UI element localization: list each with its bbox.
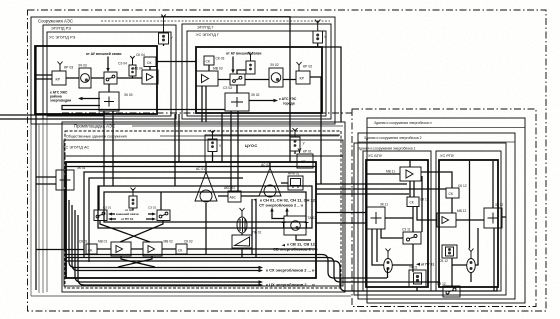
wire bus 2 (to РПУ) — [66, 258, 440, 283]
switch СВ 11 — [402, 228, 421, 245]
svg-text:внешней связи: внешней связи — [116, 212, 139, 216]
wire X-cross below МВ — [121, 256, 155, 267]
switch СВ 02 — [148, 206, 170, 221]
svg-text:АБС: АБС — [230, 196, 237, 200]
svg-text:СЗ 04: СЗ 04 — [118, 62, 127, 66]
wire ЗК11 right — [385, 217, 413, 219]
svg-text:СВ 12: СВ 12 — [439, 259, 448, 263]
wire МВ03-СВ03 — [218, 79, 230, 81]
node ЦУОС box — [205, 135, 340, 162]
svg-text:ЦУОС: ЦУОС — [245, 143, 258, 148]
receiver П (АС) with antenna — [129, 188, 137, 211]
svg-text:Здания и сооружения энергобл: Здания и сооружения энергоблока н — [374, 121, 432, 125]
wire into МВ11 — [366, 173, 400, 175]
selector СК 01 — [79, 240, 97, 255]
antenna receiver У (right, above КР01) — [290, 128, 306, 154]
frame: энергоблоки dash-dot group — [352, 109, 536, 307]
selector СК 12 — [446, 184, 467, 198]
wire ЗК03 to ЗК02 (U-route) — [62, 106, 225, 110]
wire СК12-МВ12 — [451, 198, 453, 213]
wire loop inner — [104, 192, 306, 222]
wire arrow pair к СХ энергоблоков — [79, 267, 259, 269]
wire: arrow ЗК02 to АТС УЭС — [249, 100, 274, 102]
summator ЗК 01 — [56, 166, 86, 190]
radio КР 02 — [296, 62, 312, 84]
svg-text:УС ЭПУПД РЭ: УС ЭПУПД РЭ — [49, 35, 76, 40]
frame: УС БПУ — [363, 151, 431, 291]
wire СВ03-МВ04 — [117, 77, 142, 79]
receiver П (Г) with antenna — [237, 52, 255, 74]
svg-text:УС БПУ: УС БПУ — [368, 153, 383, 158]
svg-text:СТ энергоблоков 2 .. н: СТ энергоблоков 2 .. н — [259, 203, 304, 208]
svg-text:ЗЧ 02: ЗЧ 02 — [270, 63, 279, 67]
wire СВ03(Г) to ЗК02 — [236, 85, 238, 93]
wire МВ03 drops — [202, 86, 206, 122]
svg-text:ЗК 11: ЗК 11 — [380, 203, 388, 207]
svg-text:КР 02: КР 02 — [303, 65, 312, 69]
svg-text:МВ 04: МВ 04 — [133, 67, 143, 71]
svg-text:КР 01: КР 01 — [303, 150, 312, 154]
radio КР 01 — [297, 149, 313, 169]
amplifier МВ 04 — [133, 67, 158, 85]
wire СВ03 to ЗК03 — [108, 84, 110, 92]
wire: arrow ЗК03 to АТС УЖС — [82, 98, 100, 100]
wire loop (heavy) around СВ group — [98, 186, 312, 228]
wire КР03-ЗУ03 — [66, 77, 79, 79]
wire СК04 to СК03 (долгая) — [156, 61, 196, 63]
amplifier МВ 12 — [437, 209, 466, 227]
svg-text:МВ 03: МВ 03 — [213, 67, 223, 71]
wire АС01 down — [205, 203, 207, 255]
wire СК04-МВ04 — [149, 67, 151, 71]
selector СК 11 — [407, 197, 429, 207]
switch СВ 01 — [94, 206, 111, 221]
frame line УС ЭПУПД АС inner — [64, 155, 343, 157]
svg-text:ЗК 03: ЗК 03 — [124, 93, 133, 97]
wire МВ12-ЗК12 — [456, 219, 484, 221]
heavy box УС РПУ — [439, 160, 498, 287]
svg-text:СК: СК — [410, 201, 414, 205]
wire long loop 2 — [89, 178, 243, 262]
summator ЗК 02 — [225, 93, 260, 111]
wire: up arrows from ТА 01 — [272, 211, 284, 219]
loudspeaker amp АС 02 — [259, 162, 281, 197]
svg-text:к СХ энергоблоков 2 ... н: к СХ энергоблоков 2 ... н — [266, 268, 315, 273]
svg-text:от ПУ 01: от ПУ 01 — [421, 263, 434, 267]
svg-text:от АУ внешней связи: от АУ внешней связи — [226, 52, 261, 56]
wire ЗУ03-СВ03 — [91, 77, 104, 79]
svg-text:МВ 12: МВ 12 — [457, 209, 466, 213]
svg-text:УС ЭПУПД АС: УС ЭПУПД АС — [63, 145, 89, 150]
antenna receiver Рп (Г top) — [313, 20, 327, 48]
svg-text:Здания и сооружения энергобл: Здания и сооружения энергоблока 2 — [364, 136, 422, 140]
antenna receiver У (АС top) — [208, 130, 222, 162]
svg-text:ЭПУПД Г: ЭПУПД Г — [197, 25, 215, 30]
dial unit ЗУ 03 — [78, 64, 91, 89]
wire ЗК02 down to УС АС — [230, 111, 232, 191]
svg-text:СК 03: СК 03 — [216, 57, 225, 61]
svg-text:МВ 01: МВ 01 — [98, 240, 107, 244]
microphone М 01 with antenna — [237, 208, 247, 233]
wire ЗК12 right stub — [502, 216, 506, 218]
svg-text:КР 03: КР 03 — [64, 66, 73, 70]
wire П04 drop — [132, 76, 134, 78]
wire trunk Сооружения top to УС АС — [161, 17, 290, 162]
wire bus 1 (to БПУ) — [66, 255, 387, 279]
svg-text:ЗК 02: ЗК 02 — [251, 93, 260, 97]
frame: Здания и сооружения энергоблока 1 — [354, 143, 506, 295]
svg-text:Промплощадка АЭС: Промплощадка АЭС — [74, 124, 115, 129]
svg-text:АС 02: АС 02 — [261, 163, 270, 167]
wire ТФ11 bottom — [416, 287, 418, 291]
wire: trunk from УС Г heavy box to Промплощадка — [322, 47, 341, 122]
svg-text:к АТС УЭС: к АТС УЭС — [279, 97, 297, 101]
heavy box УС ЭПУПД АС — [66, 162, 316, 278]
svg-text:к ЦХ энергоблоков 2 ... н: к ЦХ энергоблоков 2 ... н — [266, 282, 315, 287]
wire ТФ12-СВ12 — [452, 258, 467, 287]
svg-text:энерговодии: энерговодии — [50, 99, 71, 103]
amplifier МВ 03 — [196, 67, 223, 87]
svg-text:СК 04: СК 04 — [136, 53, 145, 57]
svg-text:СК 01: СК 01 — [79, 240, 88, 244]
handset radio (БПУ) with antenna — [384, 249, 393, 273]
radio КР 03 — [52, 62, 73, 86]
frame: УС ЭПУПД РЭ — [47, 32, 171, 116]
wire ЗУ02-КР02 — [283, 79, 296, 81]
svg-text:Общественные здания и сооруже: Общественные здания и сооружения — [66, 135, 127, 139]
wire long loop 1 — [84, 172, 316, 257]
wire heavy edge to КР03 (pair) — [36, 74, 52, 76]
svg-text:СЗ 01: СЗ 01 — [103, 206, 111, 210]
switch СВ 03 (РЭ) — [104, 72, 117, 84]
svg-text:ЗК 12: ЗК 12 — [495, 203, 503, 207]
frame: УС РПУ — [436, 151, 501, 291]
wire bundle АС to БПУ/РПУ — [316, 183, 407, 185]
svg-text:СК: СК — [178, 249, 182, 253]
svg-text:АС 01: АС 01 — [196, 167, 205, 171]
dial unit ЗУ 02 — [269, 63, 283, 87]
amplifier МВ 01 — [98, 240, 131, 257]
svg-text:ПВ 01: ПВ 01 — [253, 231, 262, 235]
wire ЗК12 second drop — [493, 228, 495, 291]
switch СВ 12 — [437, 282, 460, 297]
wire МВ11 top stub — [409, 160, 411, 167]
switch СВ 03 (Г) — [223, 74, 245, 90]
svg-text:от ПУ 01: от ПУ 01 — [121, 217, 134, 221]
antenna receiver Рп (РЭ top) — [159, 15, 174, 47]
wire КР02 to БПУ trunk — [310, 77, 321, 184]
wire: ЗК03 down to УС АС — [103, 115, 105, 186]
wire АС02-АРМ — [281, 182, 288, 184]
wire X-cross СВ to МВ — [100, 221, 150, 243]
wire: arrow into ЗУ 02 — [232, 57, 234, 71]
wire РПУ mic feed — [469, 161, 471, 249]
svg-text:Здания и сооружения энергобл: Здания и сооружения энергоблока 1 — [358, 147, 416, 151]
wire УС Г drop — [221, 113, 223, 162]
frame: УС ЭПУПД АС — [64, 140, 343, 286]
svg-text:КР: КР — [301, 160, 306, 164]
wire: heavy left trunk — [35, 46, 37, 290]
svg-text:СК 11: СК 11 — [420, 198, 429, 202]
frame: Здания и сооружения энергоблока 2 — [358, 133, 515, 299]
wire СК03 to МВ03 — [208, 65, 210, 71]
horn speaker ПВ 01 — [232, 231, 262, 258]
handset radio (РПУ) with antenna — [467, 249, 476, 273]
svg-text:КР: КР — [56, 78, 61, 82]
svg-text:СЗ 03: СЗ 03 — [223, 86, 232, 90]
svg-text:УС РПУ: УС РПУ — [440, 153, 455, 158]
frame: Промплощадка АЭС — [62, 122, 345, 292]
receiver П 04 with antenna — [118, 56, 136, 76]
selector СК 02 — [176, 240, 193, 255]
svg-text:СК: СК — [449, 192, 453, 196]
wire arrows to СВ01/СВ02 — [111, 213, 115, 215]
wire handset РПУ drop — [470, 273, 472, 283]
wire ЗК01 down to СК01 — [64, 190, 66, 250]
svg-text:СК: СК — [206, 60, 210, 64]
wire МВ11 to СК12 — [421, 172, 452, 188]
svg-text:города: города — [283, 102, 295, 106]
block АБС 01 — [224, 186, 241, 202]
svg-text:СЗ 02: СЗ 02 — [148, 206, 156, 210]
wire handset БПУ drop — [387, 268, 389, 279]
heavy box УС ЭПУПД Г — [196, 47, 322, 113]
wire МВ11-СК11 — [409, 181, 411, 197]
frame: Сооружения АЭС — [31, 17, 335, 124]
svg-text:МВ 02: МВ 02 — [164, 240, 173, 244]
wire bus 3 (to СВ12) — [66, 261, 443, 291]
frame: Общественные здания и сооружения — [65, 131, 341, 288]
svg-text:МВ 11: МВ 11 — [386, 170, 395, 174]
loudspeaker amp АС 01 — [195, 162, 217, 202]
wire СВ11 bottom — [412, 244, 414, 272]
wire АС02 drops — [252, 199, 256, 258]
svg-text:ЗЧ 03: ЗЧ 03 — [78, 64, 87, 68]
amplifier МВ 02 — [143, 240, 173, 257]
frame: ЭПУПД РЭ — [43, 25, 176, 119]
wire arrow pair к ЦХ энергоблоков — [81, 281, 259, 283]
selector СК 04 — [136, 53, 156, 67]
wire АС01-АБС — [218, 195, 228, 197]
svg-text:УС ЭПУПД Г: УС ЭПУПД Г — [196, 32, 220, 37]
summator ЗК 12 — [484, 203, 503, 228]
wires МВ row — [97, 248, 111, 250]
telephone ТФ 12 — [439, 245, 457, 263]
wire АБС-АС02 — [241, 195, 259, 197]
svg-text:КР: КР — [300, 77, 305, 81]
wire СВ stubs to loops — [99, 186, 161, 210]
wire ЗК12 up — [492, 161, 494, 208]
wire: РЭ to АС trunk pair — [174, 114, 176, 186]
wire СК11 to МВ12 — [417, 207, 437, 221]
wire bundle left risers (nested corners) — [69, 200, 79, 268]
wire: ЗК03 exits left of page — [0, 111, 104, 115]
svg-text:от АУ внешней связи: от АУ внешней связи — [86, 52, 121, 56]
wire heavy parallel bus below АС top — [66, 166, 316, 168]
frame: Здания и сооружения энергоблока н — [367, 118, 525, 303]
wire ЗК11 down to handset — [372, 229, 384, 265]
amplifier МВ 11 — [386, 167, 421, 181]
svg-text:СЗ 11: СЗ 11 — [402, 228, 411, 232]
svg-text:ЭПУПД РЭ: ЭПУПД РЭ — [51, 26, 71, 31]
frame: УС ЭПУПД Г — [187, 31, 326, 116]
wire handset-ТФ11 — [393, 264, 414, 266]
frame: ЭПУПД Г — [182, 24, 331, 119]
telephone ТА 01 — [282, 216, 317, 235]
wire СВ03-ЗУ02 — [245, 79, 269, 81]
workstation АРМ 01 — [288, 172, 303, 191]
heavy box УС ЭПУПД РЭ — [35, 46, 157, 114]
summator ЗК 03 — [99, 92, 133, 111]
wire: arrow into СВ 03 — [107, 57, 109, 70]
svg-text:ЗК 01: ЗК 01 — [77, 166, 86, 170]
svg-text:СК 12: СК 12 — [458, 184, 467, 188]
telephone ТФ 11 — [409, 266, 426, 288]
svg-text:Сооружения АЭС: Сооружения АЭС — [38, 19, 73, 24]
svg-text:СК 02: СК 02 — [184, 240, 193, 244]
wire ЗК12 down to handset РПУ — [476, 228, 479, 265]
selector СК 03 — [204, 56, 225, 65]
svg-text:СК: СК — [88, 249, 92, 253]
wire СК11-СВ11 — [412, 207, 414, 233]
summator ЗК 11 — [367, 203, 388, 230]
wire СВ12 right loop — [460, 287, 497, 291]
heavy box УС БПУ — [366, 160, 428, 287]
wire: ЗК01 link to left trunk — [36, 176, 56, 178]
svg-text:СК: СК — [147, 61, 151, 65]
